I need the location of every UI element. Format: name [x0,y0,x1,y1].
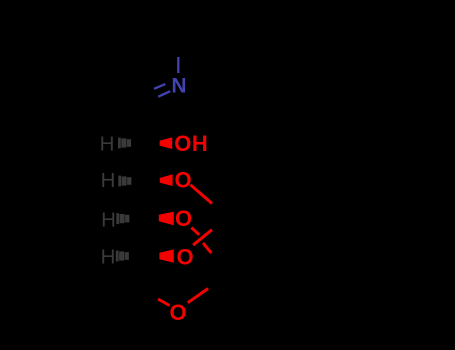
wire: bond half N1-C6 (vertical stub above N) [177,57,179,73]
svg-text:OH: OH [174,131,208,156]
svg-text:H: H [101,169,116,192]
svg-text:O: O [169,300,186,325]
svg-text:O: O [176,244,193,269]
svg-text:H: H [101,246,116,269]
wire: double bond N1=C2 main line (N half) [158,91,170,97]
wire: bond half C5-O5 (O half) [158,299,170,306]
bold wedge C1-O1 [160,137,173,149]
bold wedge C4-O4 [159,249,173,262]
wire: bond half O3-Cb upper part (crossed bond, gap at crossing) [191,228,199,235]
svg-text:H: H [100,132,115,155]
hashed wedge C1-H [118,138,131,149]
wire: bond half O2-Ca [190,185,212,204]
wire: bond half O3-Cb lower part (crossed bond, gap at crossing) [203,243,211,253]
wire: bond half O4-Ca (crossing over O3-Cb) [193,230,212,245]
hashed wedge C4-H [116,251,129,262]
hashed wedge C3-H [116,213,129,224]
svg-text:O: O [174,168,191,193]
svg-text:N: N [171,75,186,98]
svg-text:O: O [175,206,192,231]
hashed wedge C2-H [118,176,131,187]
wire: bond half O5-Cb [188,289,208,303]
bold wedge C2-O2 [160,174,173,186]
wire: double bond N1=C2 inner line (N half) [154,84,165,89]
bold wedge C3-O3 [159,212,174,226]
svg-text:H: H [101,208,116,231]
